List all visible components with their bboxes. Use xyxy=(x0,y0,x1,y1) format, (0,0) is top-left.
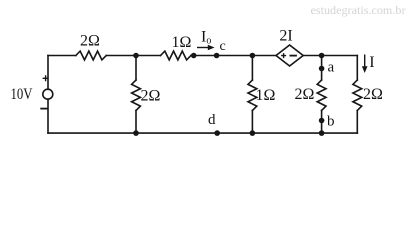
resistor R3 2ohm vertical xyxy=(132,80,141,110)
svg-text:d: d xyxy=(208,112,216,128)
junction dot bottom branch3 xyxy=(319,130,325,136)
wire right bottom xyxy=(356,111,358,134)
svg-text:2Ω: 2Ω xyxy=(295,86,315,103)
svg-text:b: b xyxy=(327,113,335,129)
junction dot bottom branch2 xyxy=(250,130,256,136)
resistor R2 1ohm horizontal xyxy=(161,51,191,60)
wire bottom xyxy=(48,132,357,134)
svg-text:estudegratis.com.br: estudegratis.com.br xyxy=(311,5,406,17)
node d dot xyxy=(214,130,220,136)
wire branch3 top xyxy=(321,56,323,81)
svg-text:2Ω: 2Ω xyxy=(80,33,100,50)
svg-text:1Ω: 1Ω xyxy=(256,87,276,104)
svg-text:I: I xyxy=(369,54,374,71)
node a dot xyxy=(319,66,325,72)
svg-text:1Ω: 1Ω xyxy=(172,34,192,51)
voltage source V1 circle xyxy=(43,89,53,99)
arrow Io head xyxy=(208,45,215,51)
wire branch2 top xyxy=(251,56,253,81)
minus sign diamond xyxy=(290,55,297,57)
svg-text:2Ω: 2Ω xyxy=(363,86,383,103)
dependent source U1 diamond 2I xyxy=(276,45,303,66)
plus sign source xyxy=(43,75,49,81)
resistor R4 1ohm vertical xyxy=(248,80,257,110)
wire top left segment xyxy=(48,55,76,57)
arrow I head xyxy=(362,66,368,73)
junction dot bottom branch1 xyxy=(133,130,139,136)
wire source top xyxy=(47,56,49,90)
svg-text:Io: Io xyxy=(201,29,211,47)
plus sign diamond xyxy=(281,53,286,58)
wire branch2 bottom xyxy=(251,111,253,134)
junction dot top branch3 xyxy=(319,53,325,59)
wire node c segment xyxy=(191,55,276,57)
svg-text:a: a xyxy=(328,60,335,76)
junction dot after R2 xyxy=(191,53,197,59)
svg-text:10V: 10V xyxy=(11,86,33,103)
wire branch3 bottom xyxy=(321,111,323,134)
wire top right segment xyxy=(303,55,357,57)
resistor R1 2ohm horizontal xyxy=(76,51,106,60)
resistor R5 2ohm vertical xyxy=(317,80,326,110)
junction dot top branch1 xyxy=(133,53,139,59)
resistor R6 2ohm right vertical xyxy=(353,80,362,110)
svg-text:2Ω: 2Ω xyxy=(141,88,161,105)
wire right drop xyxy=(356,56,358,81)
svg-text:c: c xyxy=(220,39,226,54)
wire branch1 top xyxy=(135,56,137,81)
arrow Io line xyxy=(197,47,210,49)
minus sign source xyxy=(40,108,47,110)
svg-text:2I: 2I xyxy=(279,28,292,45)
wire branch1 bottom xyxy=(135,111,137,134)
arrow I line xyxy=(364,55,366,68)
node c dot xyxy=(214,53,220,59)
node b dot xyxy=(319,118,325,124)
wire top mid segment xyxy=(106,55,160,57)
wire source bottom xyxy=(47,99,49,133)
junction dot top branch2 xyxy=(250,53,256,59)
